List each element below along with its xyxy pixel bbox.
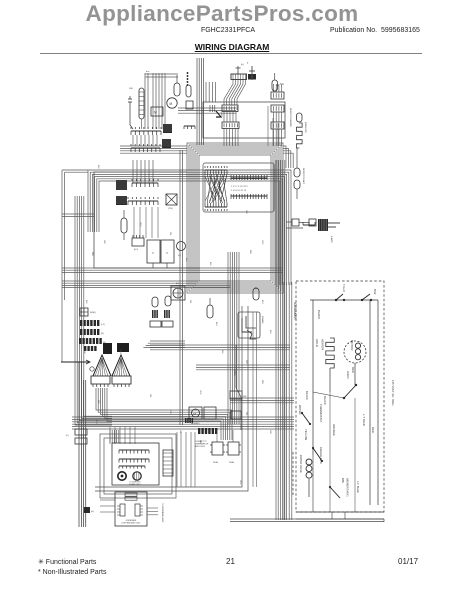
switch flag (247, 330, 256, 339)
wires solenoids up (216, 430, 218, 442)
page title WIRING DIAGRAM (0, 42, 464, 52)
svg-text:WATER: WATER (298, 405, 302, 414)
overload capsule (174, 83, 180, 96)
relay box with X (166, 194, 177, 205)
svg-text:YEL: YEL (169, 232, 171, 236)
thermistor capsule center (207, 305, 213, 318)
wire bundle mid-left horizontal run A (62, 267, 283, 269)
right column bar R1 (271, 92, 284, 99)
start capacitor stack (75, 429, 87, 435)
svg-text:LIGHTING ASSY ONLY: LIGHTING ASSY ONLY (122, 522, 142, 525)
relay can 2 (161, 240, 174, 263)
svg-text:ORG: ORG (239, 480, 241, 485)
svg-text:YEL: YEL (245, 412, 247, 416)
mini capsule (186, 85, 191, 97)
icemaker wires mid (329, 368, 331, 392)
sensor connector A (150, 321, 161, 327)
connector comb LA (132, 182, 158, 184)
fuse capsule left (121, 218, 127, 233)
icemaker dashed enclosure (296, 281, 384, 512)
dark inductor B (162, 139, 171, 148)
ground symbol plate (80, 308, 88, 316)
wire drops top-left of enclosure (205, 82, 207, 102)
fan motor base A (91, 376, 110, 384)
wire bundle right-of-rings trunk to bottom (275, 160, 277, 520)
svg-text:M: M (194, 412, 197, 416)
svg-text:RED: RED (249, 250, 251, 255)
evap fan motor tent A (93, 355, 111, 376)
svg-text:(L1): (L1) (101, 324, 105, 326)
mini dotted column (187, 72, 188, 73)
terminal strip row 4 (84, 346, 86, 351)
svg-text:(MOMENTARY): (MOMENTARY) (346, 478, 350, 496)
footer functional parts note (38, 558, 96, 566)
wire trunk top risers (196, 58, 198, 145)
svg-text:(RED): (RED) (233, 370, 235, 376)
wires from lower board right (147, 507, 158, 509)
sensor connector B (162, 321, 173, 327)
lower board comb A (120, 504, 125, 516)
hatch comb bottom-left of auger (185, 418, 187, 423)
wire verticals entering top-left (144, 73, 146, 129)
wire pair left edge vertical (61, 170, 63, 362)
compressor relay box (151, 107, 163, 116)
drain heater assembly (238, 312, 260, 338)
header divider line (40, 53, 422, 55)
svg-text:ORG: ORG (169, 410, 171, 415)
svg-text:RED: RED (97, 400, 99, 405)
right column bar R2 (271, 105, 284, 112)
icemaker hold switch (343, 397, 345, 399)
svg-text:(C): (C) (178, 255, 181, 257)
publication number (330, 27, 420, 34)
svg-text:BLK: BLK (269, 330, 271, 334)
wires sensors to trunk (150, 340, 185, 342)
model number (0, 27, 460, 34)
icemaker right rails (369, 300, 371, 505)
lower board comb B (135, 504, 140, 516)
svg-text:YEL: YEL (179, 430, 181, 434)
wire bundle to bottom boards (109, 430, 111, 443)
svg-text:(LAMP): (LAMP) (330, 236, 333, 243)
svg-text:ORG: ORG (261, 240, 263, 245)
svg-text:YEL: YEL (189, 300, 191, 304)
svg-text:BLU: BLU (215, 322, 217, 326)
svg-text:ASSY ONLY: ASSY ONLY (195, 445, 206, 448)
main control board connector bar P2 (231, 195, 267, 197)
wire pair left of rings (179, 150, 181, 425)
svg-text:RED: RED (261, 380, 263, 385)
wire risers from cluster (132, 160, 134, 183)
sensor capsule B (165, 296, 171, 306)
wire bundle icemaker feed verticals (283, 282, 285, 520)
icemaker internal connector wires (312, 455, 314, 512)
terminal strip row 2 (80, 329, 82, 335)
wire harness nested rings around main control connectors (187, 143, 283, 293)
evap fan motor tent B (112, 355, 130, 376)
icemaker bottom stubs (331, 512, 333, 519)
UI board connector comb 1 (119, 449, 149, 451)
dark coil blob A (116, 180, 127, 190)
svg-text:M: M (154, 111, 157, 115)
svg-text:ORANGE: ORANGE (332, 424, 336, 436)
svg-text:RED: RED (199, 440, 201, 445)
lower board box (115, 492, 147, 526)
connector bar K1 (222, 105, 238, 112)
svg-text:BLU: BLU (261, 300, 263, 304)
UI board connector comb 2 (119, 458, 149, 460)
svg-text:244A: 244A (213, 461, 218, 464)
svg-text:HOLD: HOLD (315, 339, 319, 347)
svg-text:(DRAIN): (DRAIN) (261, 316, 264, 324)
svg-text:M: M (170, 102, 173, 106)
dispenser lamp assembly (318, 219, 328, 231)
defrost limit capsules (294, 168, 300, 177)
black harness connector B (117, 343, 129, 352)
svg-text:R: R (165, 252, 168, 254)
svg-text:(G): (G) (91, 511, 94, 513)
UI board connector comb 3 (119, 465, 145, 467)
black harness connector A (103, 343, 112, 354)
svg-text:(GND): (GND) (90, 312, 96, 314)
svg-text:(C): (C) (66, 435, 69, 437)
svg-text:T: T (247, 62, 249, 65)
svg-text:DEFROST HEATER: DEFROST HEATER (289, 108, 292, 127)
wire crossover between combs (204, 174, 206, 203)
svg-text:BLACK: BLACK (317, 310, 321, 319)
wire bundle left vertical trunk (75, 196, 112, 425)
auger aux box (204, 407, 216, 419)
svg-text:L.T. BLUE: L.T. BLUE (362, 414, 366, 426)
svg-text:BLU: BLU (95, 420, 97, 424)
svg-text:B/W: B/W (341, 478, 345, 483)
wire bundle mid-left horizontal run B (62, 280, 230, 282)
svg-text:T-G-O: T-G-O (342, 284, 346, 293)
inner block outline (203, 163, 274, 212)
defrost heater pill (297, 113, 303, 122)
thermal fuse T (251, 66, 253, 80)
sensor pin row B (164, 310, 166, 318)
connector comb upper (main board) (205, 169, 227, 171)
svg-text:YEL: YEL (149, 394, 151, 398)
icemaker bottom rail (296, 511, 384, 513)
svg-text:BLK: BLK (209, 262, 211, 266)
main control board connector bar P1 (231, 177, 267, 179)
wire bundle upper horizontal run (120, 145, 187, 147)
icemaker feeler arm switch (312, 447, 314, 449)
mini connector box (186, 101, 193, 109)
svg-text:L.T. BLUE: L.T. BLUE (356, 481, 360, 493)
right column bar R3 (271, 122, 284, 129)
svg-text:RED: RED (351, 367, 355, 373)
icemaker water valve coil (306, 459, 312, 465)
footer non-illustrated parts note (38, 569, 106, 576)
svg-text:BLK: BLK (85, 300, 87, 304)
wire drops between combs (132, 135, 134, 146)
solenoid coil B (228, 442, 239, 455)
svg-text:RED: RED (371, 427, 375, 433)
wire bundle mid vertical trunk (227, 252, 229, 424)
svg-text:THERMOSTAT: THERMOSTAT (319, 404, 323, 422)
UI board box upper (112, 443, 159, 485)
connector pair mid-right (292, 219, 299, 226)
svg-text:246A: 246A (229, 461, 234, 464)
dark wedge (216, 111, 221, 117)
svg-text:BLU: BLU (185, 258, 187, 262)
svg-text:1 3 5 7 9 11 13 15: 1 3 5 7 9 11 13 15 (231, 186, 248, 188)
feed arrow from left trunk (61, 361, 89, 363)
fuse block row (198, 428, 200, 434)
icemaker B/W switch (361, 299, 363, 301)
defrost heater zigzag (297, 123, 303, 148)
dark inductor A (163, 124, 172, 133)
switch S2 top-left (128, 98, 132, 100)
connector bar K2 (222, 122, 239, 129)
wire horizontal feeders top-left (145, 73, 178, 75)
svg-text:(fc): (fc) (241, 64, 244, 66)
mini comb (184, 125, 195, 127)
dark square pair right of bar (248, 74, 252, 80)
icemaker water switch (301, 412, 303, 414)
rotary damper box (171, 286, 185, 300)
wire bundle bottom connector run (230, 518, 384, 520)
icemaker hold heater zigzag (326, 338, 334, 368)
icemaker T-G switch (335, 299, 337, 301)
wire risers from J bars to rings (267, 106, 269, 146)
svg-text:BLACK: BLACK (305, 391, 309, 400)
sensor pin row A (152, 310, 154, 318)
wire bundle dispenser to icemaker (230, 397, 294, 399)
icemaker water valve dashed lead (292, 452, 294, 497)
sensor capsule A (152, 297, 158, 307)
solenoid coil A (212, 442, 223, 455)
svg-text:B/W: B/W (373, 289, 377, 295)
svg-text:WHT: WHT (245, 210, 247, 215)
icemaker motor circle (344, 341, 366, 363)
page number (226, 557, 235, 566)
relay can 1 (147, 240, 160, 263)
terminal strip row 1 (80, 320, 82, 326)
thermostat capsule ladder (139, 88, 144, 119)
round capacitor (177, 242, 186, 251)
auger motor box with M (189, 407, 202, 419)
sensor wires to icemaker trunk (150, 344, 290, 346)
svg-text:BLK: BLK (97, 165, 99, 169)
icemaker left branch wire (312, 300, 314, 455)
connector comb LB (128, 200, 158, 202)
lower board top boxes (125, 493, 137, 496)
pins small cluster (209, 105, 211, 112)
svg-text:ORG: ORG (139, 222, 141, 227)
wire from lamp to trunk (286, 221, 292, 223)
svg-text:240: 240 (129, 88, 133, 90)
svg-text:(ADC): (ADC) (220, 112, 223, 118)
icemaker momentary switch (329, 486, 331, 488)
wire bundle lower horizontal run (72, 416, 294, 418)
curved riser bundle from top bar (224, 80, 233, 106)
svg-text:115 VOLT AC. 60Hz: 115 VOLT AC. 60Hz (391, 380, 395, 406)
speaker circle B (133, 472, 141, 480)
defrost thermostat capsule F2 (272, 80, 278, 91)
svg-text:BLU: BLU (119, 350, 121, 354)
svg-text:WATER VALVE: WATER VALVE (299, 455, 303, 473)
svg-text:MOTOR: MOTOR (350, 340, 354, 350)
terminal strip row 3 (79, 338, 81, 344)
enclosure outline mid-left (94, 172, 200, 268)
UI right connector column (163, 450, 173, 476)
small motor circle (90, 367, 94, 371)
wire bundle far-left pair to bottom (78, 362, 80, 527)
svg-text:(170): (170) (168, 208, 173, 210)
svg-text:SW: SW (243, 396, 246, 398)
svg-text:ICEMAKER: ICEMAKER (293, 302, 297, 320)
wire verticals right of UI board (176, 432, 178, 487)
wire stubs into UI board top (109, 427, 111, 444)
small connector DC (132, 238, 144, 246)
svg-text:ORG: ORG (199, 390, 201, 395)
svg-text:R: R (151, 252, 154, 254)
svg-text:(N): (N) (101, 333, 104, 335)
svg-text:HOLD: HOLD (346, 371, 350, 379)
icemaker top rail (310, 299, 378, 301)
site watermark header (0, 1, 454, 27)
bottom-left tick component (84, 507, 90, 513)
wire bundle top loop to icemaker (88, 170, 291, 285)
dispenser switch box 2 (231, 411, 241, 419)
speaker circle A (118, 472, 126, 480)
svg-text:BOARD ONLY: BOARD ONLY (129, 483, 141, 486)
connector comb JB (131, 147, 160, 149)
svg-text:WHT: WHT (103, 240, 105, 245)
cluster interconnect wires (133, 207, 135, 238)
wires from lower board left (100, 499, 115, 501)
svg-text:DEFROST LIMIT: DEFROST LIMIT (302, 168, 304, 185)
extra verticals to bottom (252, 312, 254, 487)
svg-text:FEELER ARM: FEELER ARM (319, 447, 323, 463)
svg-text:(D): (D) (176, 283, 179, 285)
wire stubs left edge to loop corner (62, 169, 88, 171)
svg-text:T,G: T,G (280, 83, 284, 86)
wire bundle bottom-left drop to boards (96, 388, 232, 440)
red wire label vertical (235, 345, 237, 388)
svg-text:RED: RED (91, 252, 93, 257)
publication date (398, 557, 418, 566)
svg-text:HEATER: HEATER (321, 339, 325, 350)
svg-text:BLK: BLK (221, 350, 223, 354)
svg-text:b.m: b.m (146, 71, 150, 73)
fan motor base B (112, 376, 131, 384)
drain capsule (253, 288, 259, 300)
svg-text:2 4 6 8 10 12 14: 2 4 6 8 10 12 14 (231, 190, 247, 192)
svg-text:(DEFROST): (DEFROST) (304, 122, 306, 133)
board enclosure rings (104, 438, 172, 494)
dark coil blob B (116, 196, 127, 205)
wire bundle top-center horizontal (178, 107, 236, 109)
run capacitor circle (167, 98, 177, 108)
wire pair mid-left stub (62, 213, 94, 215)
svg-text:TO DISPENSER ASSY: TO DISPENSER ASSY (161, 503, 164, 523)
big top-center connector enclosure (203, 102, 285, 138)
svg-text:(DC): (DC) (134, 249, 139, 251)
enclosure right double edge and bottom (95, 306, 242, 487)
svg-text:WHT: WHT (269, 430, 271, 435)
top connector bar with T symbol (231, 74, 247, 80)
svg-text:WHT: WHT (245, 360, 247, 365)
connector comb JA (131, 130, 161, 132)
connector comb lower (main board) (205, 206, 227, 208)
svg-text:BLACK: BLACK (323, 396, 327, 405)
svg-text:YELLOW: YELLOW (304, 429, 308, 441)
dispenser switch box 1 (230, 391, 242, 399)
